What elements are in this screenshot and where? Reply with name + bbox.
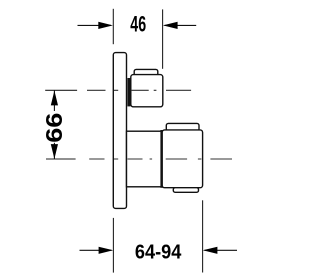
svg-text:46: 46: [130, 12, 146, 37]
thermostat knob body: [131, 75, 163, 107]
dim 66 upper stem: [53, 90, 55, 111]
volume handle body: [162, 130, 202, 188]
thermostat knob rear ring: [127, 78, 130, 106]
dim 46 right arrowhead: [163, 22, 178, 29]
volume handle bottom cap: [173, 188, 198, 193]
dim 64-94 right leader line: [205, 249, 238, 251]
dim 64-94 right arrowhead: [203, 247, 218, 254]
dim 66 lower stem: [53, 143, 55, 159]
dim 64-94 left extension line: [112, 218, 114, 273]
dim 46 left arrowhead: [98, 22, 113, 29]
svg-text:64-94: 64-94: [135, 240, 182, 263]
dim 46 left extension line: [112, 9, 114, 44]
dim 66 down arrowhead: [51, 144, 58, 159]
volume handle sleeve: [127, 131, 162, 187]
volume handle junction band: [160, 130, 163, 188]
dim 64-94 left leader line: [80, 249, 112, 251]
bottom centerline (dash-dot): [89, 158, 232, 160]
dim 46 left leader line: [78, 24, 112, 26]
top centerline (dash-dot): [87, 89, 191, 91]
dim 46 right leader line: [165, 24, 197, 26]
volume handle top cap: [166, 123, 199, 130]
svg-text:66: 66: [41, 113, 67, 143]
dim 66 up arrowhead: [51, 91, 58, 106]
dim 66 bottom extension line: [46, 158, 76, 160]
dim 64-94 right extension line: [202, 200, 204, 272]
wall plate (escutcheon, side view): [113, 53, 126, 209]
dim 66 top extension line: [45, 89, 77, 91]
thermostat knob cap: [134, 69, 158, 76]
dim 64-94 left arrowhead: [99, 247, 114, 254]
dim 46 right extension line: [162, 9, 164, 68]
